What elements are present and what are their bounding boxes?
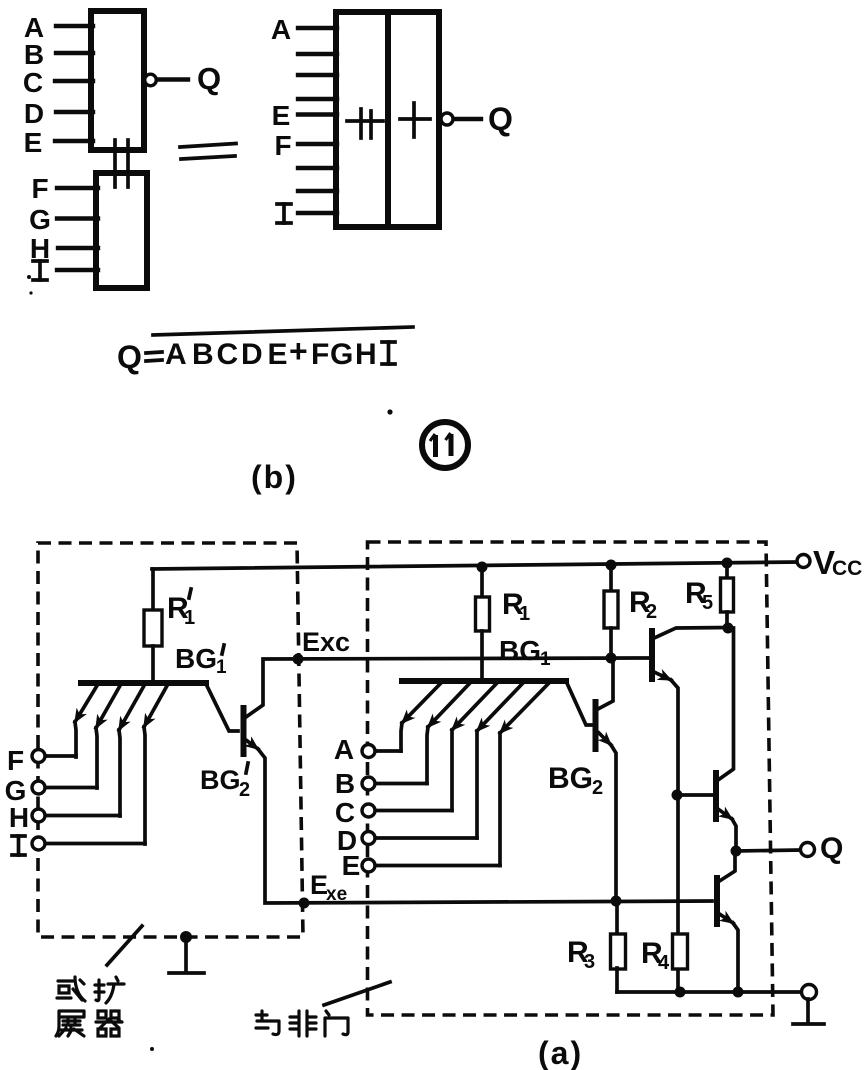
svg-text:Q: Q [117,339,142,375]
input wire D [56,110,93,114]
svg-text:A: A [165,338,187,371]
input wires (9) [298,26,337,30]
resistor R2 [609,566,613,591]
svg-text:E: E [268,338,288,371]
BG2' emitter arrow [246,740,258,749]
output inversion bubble [145,74,157,86]
svg-text:1: 1 [216,657,227,678]
label I [33,261,47,280]
node Vcc-R2 [606,560,617,571]
svg-text:2: 2 [239,779,250,801]
BG1' emitter risers [75,722,76,757]
svg-text:1: 1 [184,607,195,629]
svg-text:A: A [334,734,354,765]
svg-text:F: F [274,130,291,161]
svg-text:E: E [272,100,291,131]
ground rail [617,990,799,994]
svg-text:1: 1 [519,603,530,625]
BG2' emitter wire to Exe [258,749,712,903]
input wire C [55,79,93,83]
ground terminal [802,985,817,1000]
dashed box OR-expander [38,543,303,937]
BG2 emitter wire [611,745,616,901]
output wire Q [736,850,800,851]
resistor R3 [615,901,619,934]
output wire Q [454,117,481,121]
svg-text:G: G [29,204,51,235]
input wire E [55,139,93,143]
T5 emitter wire [733,923,738,992]
transistor BG1' multi-emitter base bar [81,680,206,686]
input G [45,786,97,790]
overline [153,327,413,335]
gate box lower (FGHI expander) [96,173,147,288]
T4 emitter wire [732,819,736,851]
node Exc [293,654,304,665]
input A [375,749,401,753]
ground left [184,937,188,970]
annotation slash right [324,982,390,1005]
T3 collector [652,628,727,640]
label I [277,204,291,223]
input wire A [56,24,93,28]
T4 emitter arrow [718,809,732,819]
input H [45,814,120,818]
svg-text:1: 1 [540,649,551,670]
gate box upper (ABCDE NAND) [91,11,144,150]
node Vcc-R1 [477,562,488,573]
node R4-ground [675,987,686,998]
svg-text:BG: BG [499,635,541,666]
input I [45,842,145,846]
svg-text:G: G [330,338,353,371]
svg-text:C: C [217,338,239,371]
BG2' collector to Exc wire [246,658,649,717]
combined gate box [336,12,439,227]
serif I [382,342,395,364]
node output [731,846,742,857]
AND mark right (cross) [400,117,430,121]
node Vcc-R5 [722,558,733,569]
svg-text:F: F [31,173,48,204]
svg-text:B: B [24,39,44,70]
dashed box NAND gate [368,542,774,1015]
svg-text:BG: BG [175,643,217,674]
transistor T5 bar [714,878,720,924]
speck [150,1047,154,1051]
svg-text:E: E [342,850,361,881]
equivalence equals sign [180,144,236,148]
transistor T3 bar [649,631,655,679]
node T4 base junction [672,790,683,801]
BG1 emitter risers [401,723,402,751]
svg-text:+: + [289,333,308,369]
svg-text:(b): (b) [251,459,298,495]
T3 emitter wire down to R4 [671,680,678,934]
transistor T4 bar [713,773,719,819]
input E [375,864,500,868]
node R5-T3-T4 [723,623,734,634]
transistor BG2' bar [241,708,247,754]
label 与非门 (NAND gate) [256,1011,348,1036]
input wire I [57,268,98,272]
T3 emitter arrow [652,671,671,680]
svg-text:Exc: Exc [302,627,350,657]
BG1 collector to BG2 base [566,681,592,725]
svg-text:B: B [192,338,214,371]
svg-text:F: F [7,745,24,776]
svg-text:A: A [271,14,291,45]
AND mark left (double cross) [347,119,383,123]
resistor R4 [673,934,688,969]
node Exe [299,898,310,909]
Vcc terminal [797,555,810,568]
resistor R1 [480,568,484,597]
T5 emitter arrow [718,913,733,923]
svg-text:Q: Q [488,101,513,137]
input wire G [57,216,98,220]
svg-text:Q: Q [197,61,221,96]
transistor BG1 base bar [402,678,566,684]
svg-text:2: 2 [592,777,603,799]
gate divider [385,12,391,227]
BG1' collector to BG2' base [206,684,238,731]
node R2-Exc junction [606,653,617,664]
output inversion bubble [441,113,453,125]
svg-text:BG: BG [548,762,593,795]
figure number circle 11 [422,422,468,468]
svg-text:BG: BG [200,765,241,795]
svg-text:F: F [311,338,329,371]
T4 collector [718,628,734,780]
svg-text:C: C [23,67,43,98]
speck [27,275,31,279]
input D [375,836,477,840]
label 展器 (expander) line 2 [56,1011,122,1036]
svg-text:2: 2 [646,601,657,623]
input wire B [56,51,93,55]
svg-text:H: H [9,802,29,833]
input wire H [58,246,98,250]
input C [375,809,452,813]
svg-text:3: 3 [584,951,595,973]
Vcc rail [152,562,798,569]
expander connection wires [113,140,117,187]
BG2 emitter arrow [599,733,611,745]
svg-text:CC: CC [832,557,862,580]
BG1 emitter arrows [402,683,441,723]
output wire Q [157,77,188,81]
node T5-ground [733,987,744,998]
svg-text:4: 4 [658,952,670,974]
svg-text:E: E [24,127,43,158]
svg-text:C: C [335,797,355,828]
input F [45,754,76,758]
ground symbol right [806,999,810,1021]
svg-text:5: 5 [702,592,713,614]
svg-text:D: D [24,98,44,129]
input wire F [57,186,98,190]
node Exe-R3 junction [611,896,622,907]
input B [375,782,427,786]
svg-text:Q: Q [820,832,843,865]
BG1' emitter arrows [75,684,98,722]
resistor R1' [151,569,155,610]
T4 base wire [678,793,712,797]
annotation slash left [107,926,142,965]
label 或扩 (OR expander) line 1 [57,977,124,1003]
svg-text:(a): (a) [538,1035,583,1070]
transistor BG2 bar [593,702,599,749]
svg-text:H: H [355,338,377,371]
BG2 collector [598,659,613,709]
T5 collector [718,851,735,882]
speck [29,291,32,294]
node ground tap left box [180,931,192,943]
svg-text:D: D [241,338,263,371]
speck [387,409,392,414]
resistor R5 [725,563,729,578]
svg-text:xe: xe [326,884,347,905]
svg-text:B: B [335,768,355,799]
